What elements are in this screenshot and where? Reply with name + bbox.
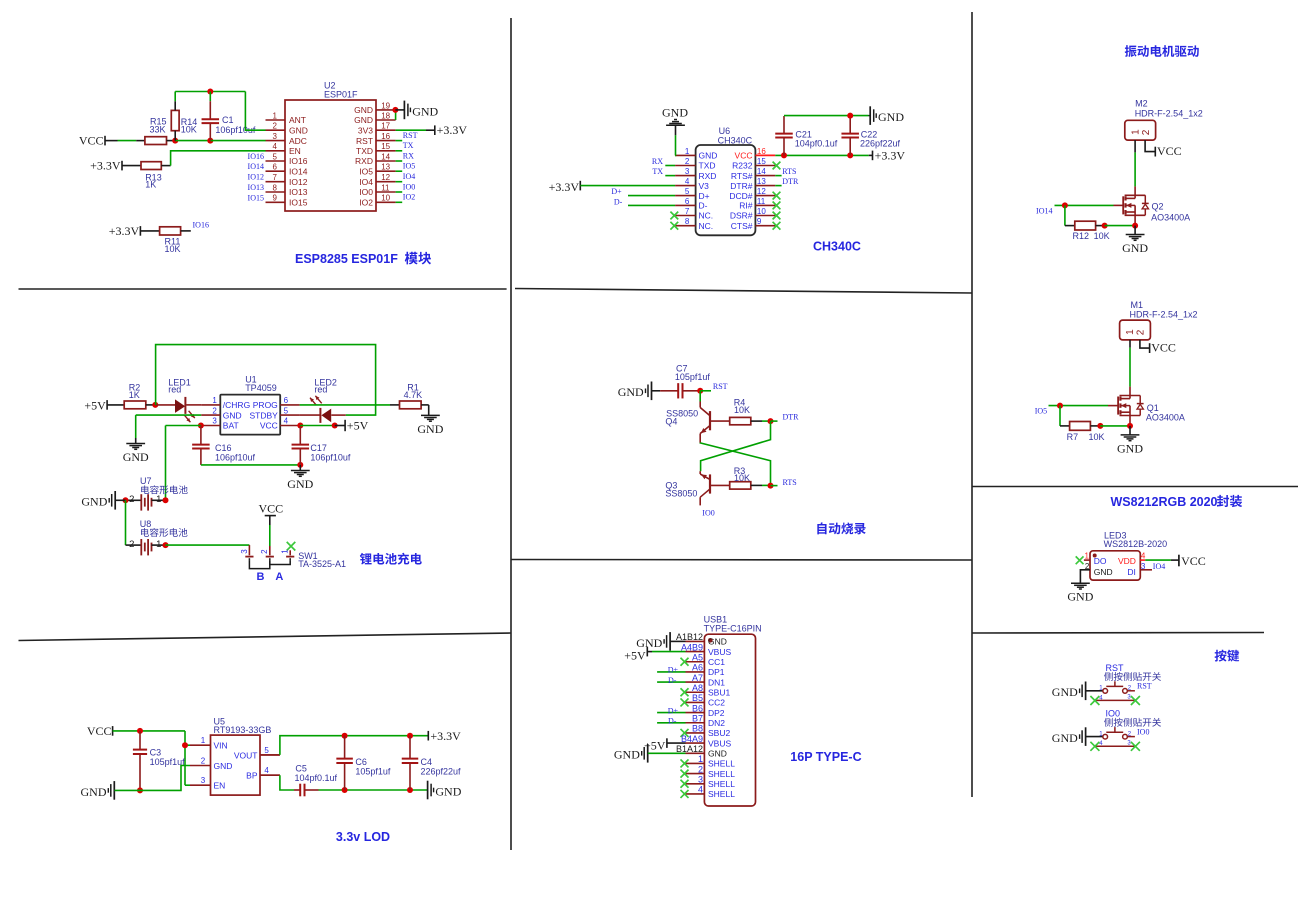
svg-text:red: red [168, 385, 181, 395]
U1 pin 6 PROG [280, 404, 299, 406]
svg-text:SBU2: SBU2 [708, 728, 730, 738]
junction BAT node at U1 pin3 [198, 423, 204, 429]
svg-text:RTS#: RTS# [731, 171, 753, 181]
junction DTR node [768, 418, 774, 424]
svg-text:GND: GND [354, 105, 373, 115]
svg-text:13: 13 [757, 177, 766, 186]
earth ground under R2 area [126, 443, 145, 445]
svg-text:10: 10 [757, 207, 766, 216]
svg-text:SBU1: SBU1 [708, 687, 730, 697]
svg-text:5: 5 [264, 746, 269, 755]
section title buttons [1215, 650, 1227, 662]
net label IO0 at U2 right [396, 191, 403, 193]
connector M1 HDR-F-2.54_1x2 body [1120, 320, 1151, 340]
svg-text:GND: GND [699, 151, 718, 161]
svg-text:105pf1uf: 105pf1uf [355, 767, 391, 777]
wire C1 node to U2 pin3 [210, 140, 265, 142]
U1 pin 5 STDBY [280, 414, 299, 416]
svg-text:IO15: IO15 [248, 193, 264, 202]
svg-text:HDR-F-2.54_1x2: HDR-F-2.54_1x2 [1130, 309, 1198, 319]
power flag VCC at M2 [1154, 147, 1156, 157]
U2 pin 11 IO0 [376, 191, 396, 193]
svg-text:RXD: RXD [355, 156, 373, 166]
power flag +3.3V right [427, 731, 429, 741]
svg-text:B5: B5 [692, 693, 703, 703]
svg-text:4: 4 [1141, 552, 1146, 561]
junction C3 top [137, 728, 143, 734]
U6 pin 15 R232 [755, 165, 775, 167]
svg-text:105pf1uf: 105pf1uf [675, 372, 711, 382]
svg-text:16: 16 [757, 147, 766, 156]
section divider horizontal line under ESP8285 block [19, 288, 507, 290]
wire U5 VOUT to +3.3V rail [260, 754, 280, 756]
USB1 pin A6 DP1 [686, 671, 705, 673]
U6 pin 4 V3 [675, 185, 696, 187]
no-connect X marks on U6 pins 15,12,11,10,9 [773, 162, 781, 170]
svg-text:GND: GND [662, 106, 688, 120]
USB1 pin A8 SBU1 [686, 691, 705, 693]
svg-text:RTS: RTS [783, 478, 797, 487]
svg-text:IO16: IO16 [193, 221, 209, 230]
section title auto programming [817, 522, 826, 534]
svg-text:VCC: VCC [87, 724, 112, 738]
net label IO14 wire [1055, 204, 1114, 206]
wire IO5 node down to R7 [1059, 406, 1061, 426]
wire IO14 node down to R12 [1064, 205, 1066, 225]
svg-text:2: 2 [1135, 329, 1146, 335]
svg-text:VBUS: VBUS [708, 738, 731, 748]
svg-text:GND: GND [708, 748, 727, 758]
svg-text:IO14: IO14 [1036, 206, 1052, 215]
resistor R1 [400, 401, 422, 409]
capacitor C22 [849, 116, 851, 134]
svg-text:18: 18 [381, 111, 390, 120]
svg-text:3: 3 [212, 417, 217, 426]
wire U5 GND pin2 to ground rail [140, 766, 190, 791]
svg-text:5: 5 [284, 406, 289, 415]
svg-text:11: 11 [381, 183, 390, 192]
svg-text:4: 4 [273, 142, 278, 151]
svg-text:6: 6 [273, 163, 278, 172]
USB1 pin A4B9 VBUS [686, 651, 705, 653]
svg-text:R7: R7 [1067, 432, 1079, 442]
svg-text:GND: GND [223, 410, 242, 420]
svg-text:D-: D- [668, 676, 677, 685]
wire BAT node left and down to batteries [166, 425, 201, 427]
no-connect X at USB1 pin A8 [681, 688, 689, 696]
svg-text:IO14: IO14 [289, 166, 308, 176]
U2 pin 16 RST [376, 140, 396, 142]
svg-text:8: 8 [273, 183, 278, 192]
svg-text:RST: RST [356, 136, 373, 146]
M1 pin1 lead down to Q1 drain [1129, 340, 1131, 348]
svg-text:IO14: IO14 [248, 162, 264, 171]
earth ground under C17 [299, 465, 301, 471]
RST button bridge [1106, 685, 1123, 687]
svg-text:DN2: DN2 [708, 718, 725, 728]
svg-text:GND: GND [614, 748, 640, 762]
SW1 pin caps and contacts [245, 556, 253, 558]
U6 pin 2 TXD [675, 165, 696, 167]
svg-text:GND: GND [81, 495, 107, 509]
USB1 pin B6 DP2 [686, 712, 705, 714]
svg-text:33K: 33K [150, 124, 166, 134]
wire U7 pin2 down to U8 pin2 [125, 500, 127, 545]
svg-text:4.7K: 4.7K [404, 390, 423, 400]
wire GND top rail [784, 115, 869, 117]
svg-text:GND: GND [287, 477, 313, 491]
wire top net R14 to corner [175, 91, 245, 93]
svg-text:3: 3 [685, 167, 690, 176]
U6 pin 5 D+ [675, 195, 696, 197]
U2 pin 5 IO16 [266, 160, 286, 162]
net label RTS at U6 pin14 [775, 175, 781, 177]
svg-text:GND: GND [417, 422, 443, 436]
svg-text:10K: 10K [1094, 231, 1110, 241]
U2 pin 18 GND [376, 119, 396, 121]
earth ground under Q2 [1134, 226, 1136, 235]
U2 pin 14 RXD [376, 160, 396, 162]
svg-text:1: 1 [1085, 552, 1090, 561]
svg-text:12: 12 [757, 187, 766, 196]
junction R2/LED1/top-net [152, 402, 158, 408]
svg-text:2: 2 [129, 494, 134, 505]
svg-text:IO2: IO2 [403, 193, 415, 202]
svg-text:7: 7 [273, 173, 278, 182]
USB1 pin 2 SHELL [686, 773, 705, 775]
svg-text:GND: GND [214, 761, 233, 771]
no-connect X at USB1 pin B5 [681, 698, 689, 706]
svg-text:16P TYPE-C: 16P TYPE-C [790, 750, 861, 764]
ground flag at RST button [1085, 682, 1087, 701]
svg-text:105pf1uf: 105pf1uf [150, 757, 186, 767]
svg-text:1: 1 [281, 549, 290, 554]
junction at +5V flag [332, 423, 338, 429]
svg-text:IO13: IO13 [289, 187, 308, 197]
no-connect X at USB1 pin A5 [681, 658, 689, 666]
svg-text:TYPE-C16PIN: TYPE-C16PIN [704, 623, 762, 633]
svg-text:DP2: DP2 [708, 708, 725, 718]
svg-text:10K: 10K [181, 124, 197, 134]
svg-text:2: 2 [129, 539, 134, 550]
svg-text:GND: GND [878, 110, 904, 124]
ground flag left of U7 [114, 491, 116, 510]
section title battery charging [360, 553, 372, 565]
wire corner down to VIN and EN [184, 731, 186, 785]
svg-text:RI#: RI# [739, 201, 753, 211]
svg-text:M2: M2 [1135, 99, 1148, 109]
svg-text:DO: DO [1094, 556, 1107, 566]
capacitor C16 [200, 426, 202, 445]
wire R1 to earth [421, 404, 429, 406]
U1 pin 4 VCC [280, 425, 299, 427]
ground flag right [427, 781, 429, 800]
svg-text:2: 2 [698, 764, 703, 774]
wire U1 pin4 to +5V flag [300, 425, 334, 427]
junction U8 pin1 [163, 542, 169, 548]
ground flag bottom left [113, 781, 115, 800]
ground flag at USB1 pin B1A12 [647, 744, 649, 763]
svg-text:EN: EN [214, 781, 226, 791]
svg-text:PROG: PROG [253, 400, 278, 410]
svg-text:U8: U8 [140, 519, 152, 529]
transistor Q3 SS8050 [699, 471, 701, 474]
resistor R13 [141, 162, 161, 170]
wire C5 to ground flag right [319, 789, 428, 791]
svg-text:B7: B7 [692, 713, 703, 723]
net label D+ wire to U6 pin5 [628, 195, 675, 197]
svg-text:GND: GND [1052, 685, 1078, 699]
no-connect X at USB1 pin 2 [681, 770, 689, 778]
svg-text:C4: C4 [421, 757, 433, 767]
U5 pin 4 BP [260, 774, 280, 776]
no-connect X at USB1 pin 4 [681, 790, 689, 798]
svg-text:1: 1 [156, 539, 161, 550]
power flag +5V at U1 pin4 [344, 420, 346, 431]
junction at C17 bottom / earth [297, 462, 303, 468]
svg-text:14: 14 [381, 152, 390, 161]
IO0 button bridge [1106, 731, 1123, 733]
svg-text:4: 4 [284, 417, 289, 426]
svg-text:+3.3V: +3.3V [90, 159, 121, 173]
svg-text:16: 16 [381, 132, 390, 141]
svg-text:10K: 10K [734, 473, 750, 483]
svg-text:WS8212RGB 2020: WS8212RGB 2020 [1111, 495, 1218, 509]
svg-text:A4B9: A4B9 [681, 642, 703, 652]
svg-text:GND: GND [123, 450, 149, 464]
svg-text:RST: RST [1137, 682, 1152, 691]
svg-text:red: red [314, 385, 327, 395]
junction top net at C1 [207, 89, 213, 95]
svg-text:+5V: +5V [347, 419, 369, 433]
net label TX at U2 right [396, 150, 403, 152]
svg-text:DN1: DN1 [708, 677, 725, 687]
section divider horizontal line under WS2812 block [972, 632, 1264, 635]
svg-text:SHELL: SHELL [708, 769, 735, 779]
net label RST [700, 390, 711, 392]
svg-text:TA-3525-A1: TA-3525-A1 [298, 559, 346, 569]
U2 pin 13 IO5 [376, 170, 396, 172]
U2 pin 15 TXD [376, 150, 396, 152]
capacitor C7 [660, 390, 678, 392]
svg-text:1: 1 [698, 754, 703, 764]
svg-text:3: 3 [273, 132, 278, 141]
svg-text:10K: 10K [1089, 432, 1105, 442]
USB1 pin 4 SHELL [686, 793, 705, 795]
U5 pin 3 EN [190, 784, 211, 786]
svg-text:104pf0.1uf: 104pf0.1uf [795, 138, 838, 148]
capacitor C1 [209, 92, 211, 102]
svg-text:3: 3 [201, 776, 206, 785]
svg-text:11: 11 [757, 197, 766, 206]
svg-text:A5: A5 [692, 652, 703, 662]
svg-text:WS2812B-2020: WS2812B-2020 [1104, 539, 1168, 549]
wire U8 pin1 to SW1 pin3 [166, 544, 250, 546]
net label D- wire to USB1 pin B7 [657, 722, 685, 724]
IC U2 ESP01F body [285, 100, 376, 211]
svg-text:VCC: VCC [260, 421, 278, 431]
svg-text:GND: GND [412, 104, 438, 118]
svg-text:A8: A8 [692, 683, 703, 693]
svg-text:CC2: CC2 [708, 698, 725, 708]
svg-text:VOUT: VOUT [234, 750, 258, 760]
svg-text:SHELL: SHELL [708, 779, 735, 789]
svg-text:VIN: VIN [214, 741, 228, 751]
svg-text:B6: B6 [692, 703, 703, 713]
resistor R7 [1070, 422, 1091, 431]
svg-text:10K: 10K [734, 405, 750, 415]
svg-text:2: 2 [212, 406, 217, 415]
svg-text:RTS: RTS [782, 167, 796, 176]
svg-text:DTR: DTR [782, 177, 799, 186]
resistor R15 [145, 137, 167, 145]
junction U7 pin2 [123, 497, 129, 503]
U6 pin 9 CTS# [755, 225, 775, 227]
IO0 button pin2 wire [1127, 736, 1135, 738]
svg-text:B8: B8 [692, 724, 703, 734]
svg-text:ESP8285 ESP01F: ESP8285 ESP01F [295, 252, 401, 266]
svg-text:IO5: IO5 [403, 162, 415, 171]
svg-text:GND: GND [1052, 731, 1078, 745]
svg-text:17: 17 [381, 122, 390, 131]
junction RST node [697, 388, 703, 394]
svg-text:D-: D- [614, 197, 623, 206]
svg-text:1: 1 [156, 494, 161, 505]
svg-text:BAT: BAT [223, 421, 239, 431]
svg-text:TX: TX [652, 167, 663, 176]
U6 pin 14 RTS# [755, 175, 775, 177]
capacitor C21 [783, 116, 785, 134]
svg-text:BP: BP [246, 771, 258, 781]
svg-text:10: 10 [381, 194, 390, 203]
SW1 bracket A pins 2-1 [270, 560, 290, 564]
svg-text:+5V: +5V [84, 399, 106, 413]
svg-text:IO16: IO16 [248, 152, 264, 161]
U5 pin 2 GND [190, 765, 211, 767]
earth ground under LED3 [1071, 582, 1090, 584]
U6 pin 7 NC. [675, 215, 696, 217]
IC U6 CH340C body [696, 145, 756, 235]
svg-text:VCC: VCC [79, 134, 104, 148]
svg-text:CH340C: CH340C [813, 240, 861, 254]
svg-text:GND: GND [708, 637, 727, 647]
svg-text:Q2: Q2 [1152, 202, 1164, 212]
wire top net corner down to U2 pin2 [245, 92, 265, 131]
svg-text:106pf10uf: 106pf10uf [215, 453, 256, 463]
svg-text:CTS#: CTS# [731, 221, 753, 231]
no-connect X marks on U6 pins 7,8 [670, 212, 678, 220]
svg-text:DTR: DTR [783, 413, 800, 422]
svg-text:DCD#: DCD# [729, 191, 752, 201]
svg-text:RT9193-33GB: RT9193-33GB [214, 725, 272, 735]
net label DTR at U6 pin13 [775, 185, 781, 187]
U2 pin 10 IO2 [376, 201, 396, 203]
no-connect X at USB1 pin 1 [681, 759, 689, 767]
svg-text:C3: C3 [150, 747, 162, 757]
USB1 pin B7 DN2 [686, 722, 705, 724]
ground flag at IO0 button [1085, 727, 1087, 746]
USB1 pin B8 SBU2 [686, 732, 705, 734]
svg-text:VBUS: VBUS [708, 647, 731, 657]
transistor Q1 AO3400A [1129, 387, 1131, 399]
SW1 bracket B pins 3-2 [249, 560, 269, 568]
ground flag top right of CH340C [869, 115, 871, 117]
svg-text:U7: U7 [140, 476, 152, 486]
U2 pin 6 IO14 [266, 170, 286, 172]
svg-text:19: 19 [381, 101, 390, 110]
U6 pin 1 GND [675, 154, 696, 156]
section divider vertical line between left and middle columns [510, 18, 512, 850]
net label RX at U2 right [396, 160, 403, 162]
svg-text:TP4059: TP4059 [245, 383, 277, 393]
svg-text:A1B12: A1B12 [676, 632, 703, 642]
wire RST node down to Q4 collector [699, 391, 701, 402]
svg-text:SS8050: SS8050 [665, 489, 697, 499]
svg-text:12: 12 [381, 173, 390, 182]
wire U1 pin6 PROG to R1 [300, 404, 390, 406]
junction C21 bottom [781, 152, 787, 158]
power flag +3.3V at U2 pin17 [434, 125, 436, 135]
svg-text:IO15: IO15 [289, 198, 308, 208]
svg-text:IO0: IO0 [403, 182, 415, 191]
svg-text:D-: D- [699, 201, 708, 211]
svg-text:ANT: ANT [289, 115, 306, 125]
wire R15 to node [167, 140, 176, 142]
svg-text:GND: GND [1122, 241, 1148, 255]
svg-text:RXD: RXD [699, 171, 717, 181]
transistor Q4 SS8050 [699, 402, 701, 408]
svg-text:EN: EN [289, 146, 301, 156]
svg-text:+3.3V: +3.3V [549, 180, 580, 194]
resistor R14 [171, 110, 179, 130]
svg-text:GND: GND [1067, 590, 1093, 604]
net label IO4 at U2 right [396, 181, 403, 183]
ground flag left of C7 [651, 382, 653, 401]
resistor R11 [160, 227, 181, 235]
ground flag at USB1 pin A1B12 [669, 632, 671, 651]
net label D+ wire to USB1 pin B6 [657, 712, 685, 714]
wire crossover Q4 emitter to RTS [700, 443, 770, 486]
svg-text:GND: GND [618, 385, 644, 399]
wire +3.3V to R11 [140, 230, 159, 232]
no-connect X at USB1 pin B8 [681, 729, 689, 737]
svg-text:IO4: IO4 [359, 177, 373, 187]
svg-text:VDD: VDD [1118, 556, 1136, 566]
net label DTR [771, 420, 778, 422]
wire node to C1 node [175, 140, 210, 142]
svg-text:6: 6 [284, 396, 289, 405]
VCC net wire from U6 pin16 [755, 154, 775, 156]
U1 pin 3 BAT [201, 425, 220, 427]
svg-text:IO0: IO0 [1137, 727, 1149, 736]
U2 pin 3 ADC [266, 140, 286, 142]
svg-text:HDR-F-2.54_1x2: HDR-F-2.54_1x2 [1135, 109, 1203, 119]
no-connect X at USB1 pin 3 [681, 780, 689, 788]
U1 pin 1 /CHRG [201, 404, 220, 406]
section divider horizontal line under auto-program block [511, 559, 972, 562]
svg-text:B1A12: B1A12 [676, 744, 703, 754]
IO0 button contacts [1103, 734, 1108, 739]
svg-text:13: 13 [381, 163, 390, 172]
net label D- wire to U6 pin6 [628, 204, 675, 206]
U2 pin 7 IO12 [266, 181, 286, 183]
svg-text:DTR#: DTR# [730, 181, 752, 191]
svg-text:GND: GND [1094, 567, 1113, 577]
svg-text:D+: D+ [668, 706, 679, 715]
svg-text:C1: C1 [222, 115, 234, 125]
svg-text:TX: TX [403, 141, 414, 150]
capacitor C5 [294, 789, 300, 791]
